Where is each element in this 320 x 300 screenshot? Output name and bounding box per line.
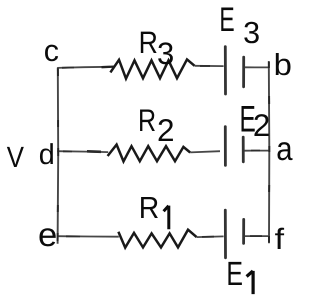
wire top branch left segment: [57, 67, 110, 68]
wire top branch battery to node b: [245, 66, 269, 68]
svg-text:2: 2: [157, 112, 175, 148]
wire middle branch battery to node a: [244, 150, 268, 152]
wire bottom branch battery to node f: [245, 235, 269, 237]
wire right rail b-a-f: [268, 61, 271, 243]
wire middle branch resistor to battery: [190, 151, 220, 152]
svg-text:R: R: [139, 25, 158, 60]
svg-text:b: b: [274, 48, 292, 82]
label R1: [139, 191, 169, 229]
resistor R3: [110, 59, 194, 78]
wire top branch resistor to battery: [195, 65, 224, 67]
svg-text:3: 3: [157, 36, 174, 71]
label E1: [226, 256, 253, 294]
svg-text:E: E: [226, 256, 243, 293]
label R3: [139, 25, 175, 71]
svg-text:V: V: [7, 141, 25, 174]
svg-text:c: c: [44, 34, 59, 68]
svg-text:E: E: [219, 1, 234, 39]
wire left rail c-d-e: [57, 68, 60, 244]
svg-text:3: 3: [243, 16, 260, 50]
wire texture dashes on left rail: [57, 68, 60, 241]
svg-text:d: d: [39, 139, 55, 171]
label E3: [219, 1, 260, 50]
label R2: [138, 103, 175, 148]
svg-text:R: R: [138, 103, 156, 138]
svg-text:f: f: [275, 223, 285, 256]
resistor R2: [108, 145, 191, 162]
current arrow (faded) on middle branch: [87, 150, 101, 153]
wire bottom branch left segment: [57, 235, 119, 238]
resistor R1: [118, 230, 196, 248]
wire bottom branch resistor to battery: [197, 235, 224, 238]
wire texture dashes on branch wires: [62, 66, 262, 237]
current arrow (bold wire segment) on top branch: [102, 65, 115, 68]
wire middle branch left segment: [57, 150, 108, 153]
svg-text:R: R: [139, 191, 159, 225]
label E2: [239, 99, 270, 143]
battery E3: [225, 47, 243, 94]
svg-text:e: e: [38, 216, 57, 253]
battery E1: [225, 210, 243, 258]
wire texture dashes on right rail: [268, 62, 270, 243]
svg-text:2: 2: [253, 108, 270, 143]
svg-text:a: a: [276, 131, 293, 168]
battery E2: [225, 127, 243, 166]
